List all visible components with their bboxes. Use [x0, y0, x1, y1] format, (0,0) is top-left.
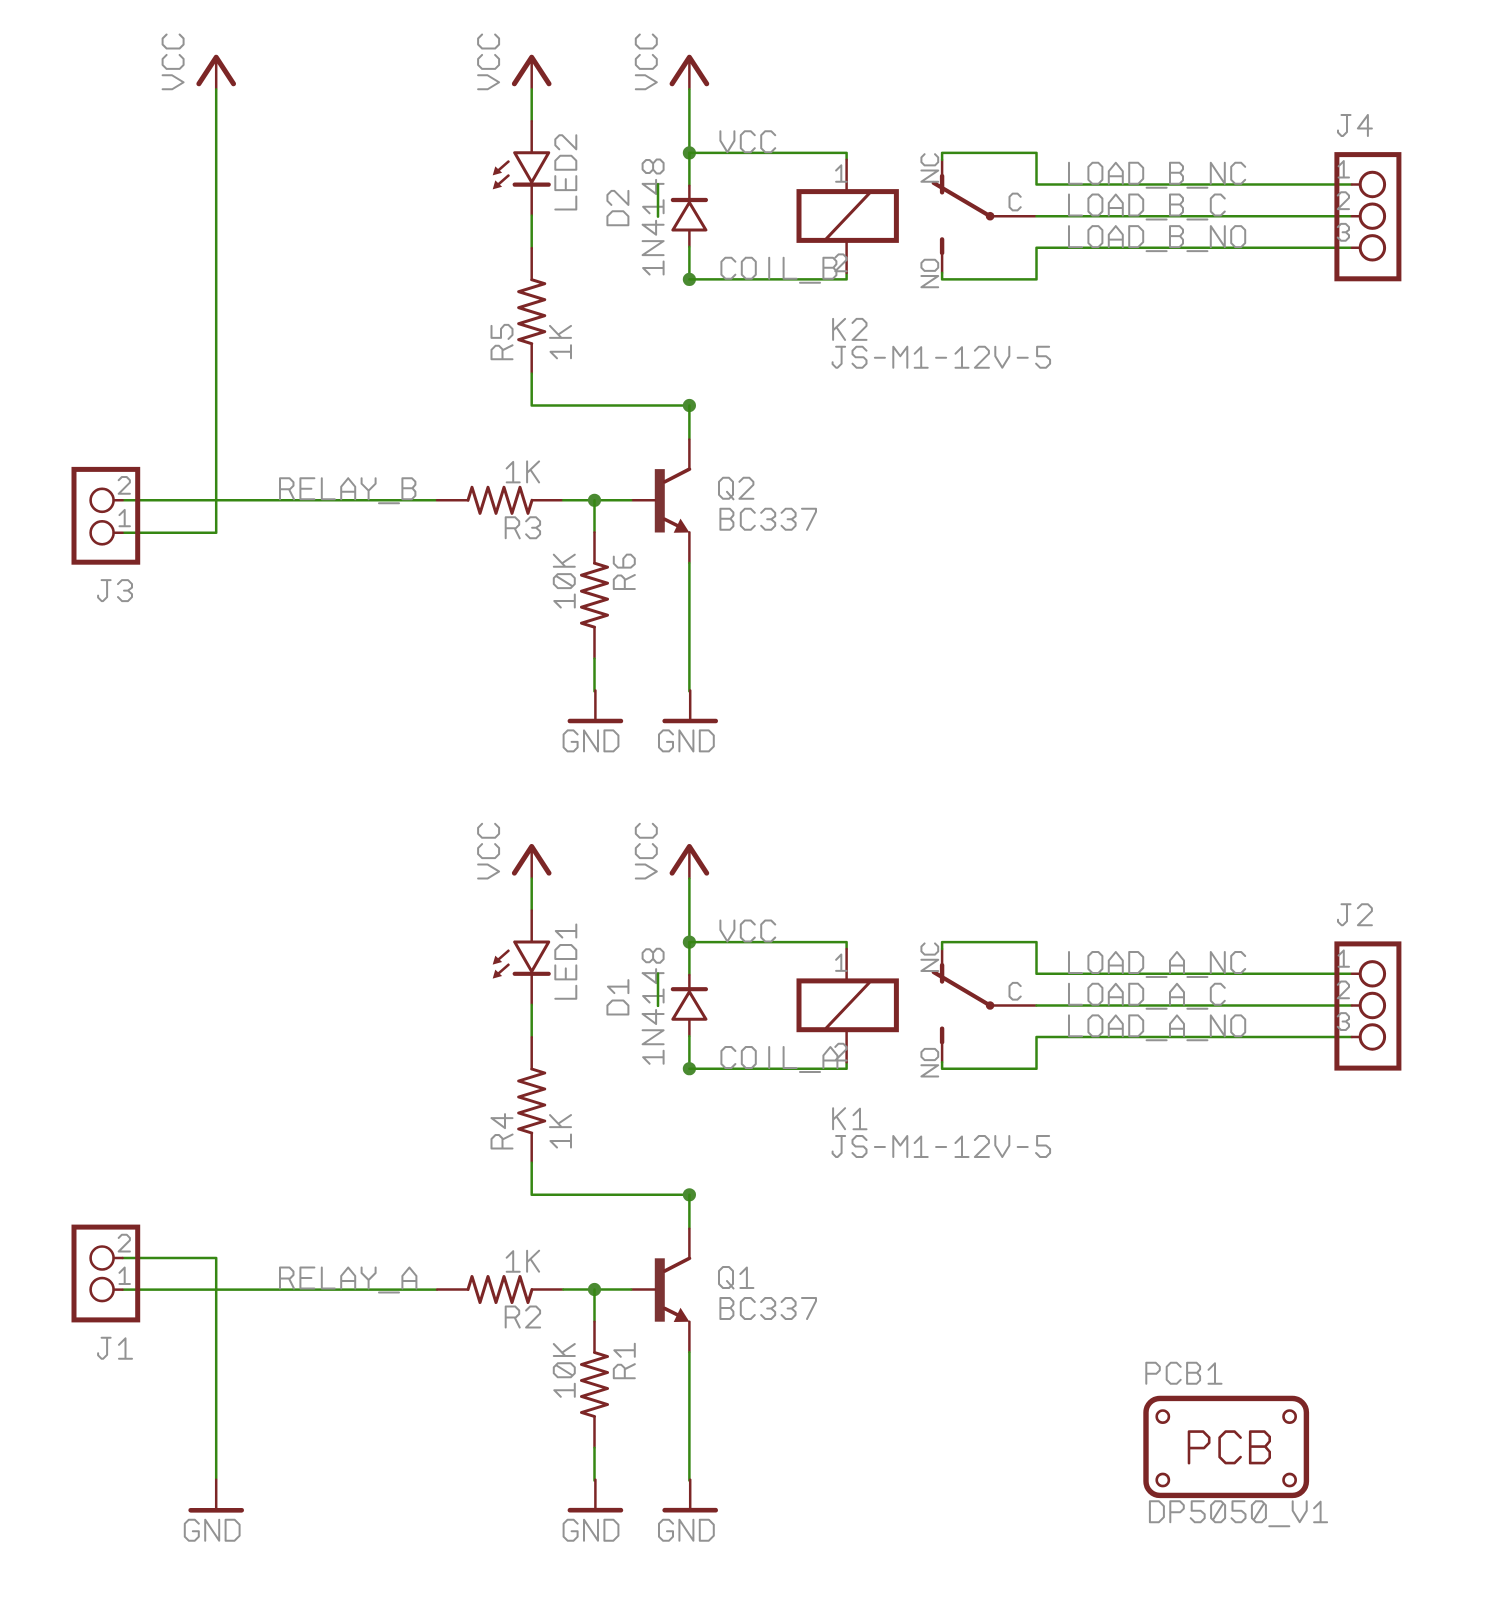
wire VCC to LEDB [530, 89, 533, 121]
label LOAD_A_C net [1069, 984, 1225, 1009]
connector J2 [1337, 944, 1399, 1068]
label J3 [98, 580, 132, 601]
ground symbol under Q2 [665, 691, 716, 722]
label GND under Q1 [659, 1520, 714, 1541]
label LOAD_B_NO net [1069, 226, 1245, 251]
wire VCC node to relay coil pin 1 [689, 942, 846, 949]
connector J4 [1337, 155, 1399, 279]
label VCC (input J3) [163, 35, 184, 90]
label VCC (LED branch) A [478, 824, 499, 879]
relay K1 switch blade [934, 972, 1037, 1010]
label DP5050_V1 value of PCB1 [1150, 1501, 1327, 1526]
label RELAY_B net [280, 478, 415, 503]
pin name C of K2 [1010, 194, 1021, 211]
pin 2 label of K1 [835, 1044, 846, 1061]
wire emitter of Q2 to ground [688, 563, 691, 691]
label J1 [98, 1338, 132, 1359]
wire VCC down to J3 pin 1 [123, 89, 217, 532]
wire NO contact to J2 pin 3 [942, 1037, 1352, 1069]
resistor R3 base resistor [437, 487, 563, 513]
label LOAD_A_NC net [1069, 952, 1245, 977]
label PCB1 [1146, 1363, 1221, 1384]
label GND under R1 [564, 1520, 619, 1541]
pin 3 label of J4 [1338, 224, 1349, 241]
junction collector node B [683, 399, 696, 412]
label LED2 [555, 135, 576, 209]
wire VCC down to VCC node A [688, 879, 691, 943]
pin name NO of K1 [921, 1049, 938, 1077]
label 10K value of R6 [554, 555, 575, 608]
connector J1 [74, 1227, 138, 1320]
wire VCC to LEDA [530, 879, 533, 911]
label 1K value of R2 [507, 1251, 539, 1272]
relay K1 switch NO contact [940, 1029, 944, 1063]
power VCC symbol (LED branch) B [514, 57, 549, 89]
wire coil node to relay coil pin 2 [689, 273, 846, 280]
label D2 [607, 191, 628, 225]
ground symbol under R1 [570, 1480, 621, 1510]
wire collector node to Q2 [688, 406, 691, 440]
label Q2 [719, 478, 753, 500]
pin 2 label of J4 [1338, 192, 1349, 209]
LED LED1 [493, 911, 549, 1005]
label R6 [614, 555, 635, 589]
label VCC net A [720, 921, 775, 942]
label K1 [833, 1108, 866, 1129]
label GND under Q2 [659, 730, 714, 751]
label BC337 value of Q1 [720, 1298, 816, 1319]
wire VCC down to VCC node B [688, 89, 691, 152]
label COIL_B net [721, 258, 836, 283]
label R5 [492, 325, 513, 359]
ground symbol at J1 [191, 1480, 242, 1511]
label Q1 [719, 1267, 753, 1289]
diode D2 1N4148 [673, 186, 706, 247]
wire stub near 1N4148 label [657, 974, 660, 1006]
pin name NO of K2 [921, 260, 938, 288]
power VCC symbol (input J3) [199, 57, 234, 89]
wire J1 pin 1 RELAY_A [123, 1288, 438, 1291]
pin 1 label of J4 [1339, 161, 1349, 177]
junction base node B [588, 494, 601, 507]
wire coil node to relay coil pin 2 [689, 1062, 846, 1069]
wire diode anode to coil node B [688, 247, 691, 280]
wire R2 to base node [563, 1288, 631, 1291]
wire J3 pin 2 RELAY_B [123, 499, 438, 502]
resistor R5 [519, 248, 545, 374]
junction VCC node B [683, 146, 696, 159]
label LOAD_B_NC net [1069, 163, 1245, 188]
label J2 [1338, 904, 1372, 925]
resistor R6 pull-down [582, 532, 608, 658]
label GND at J1 [185, 1520, 240, 1541]
label R1 [614, 1344, 635, 1378]
label BC337 value of Q2 [720, 509, 816, 530]
ground symbol under R6 [570, 691, 621, 722]
junction collector node A [683, 1188, 696, 1201]
wire LED to R4 [530, 1005, 533, 1037]
label 1N4148 value of D1 [643, 949, 664, 1064]
relay K2 coil [799, 160, 896, 273]
wire NC contact to J2 pin 1 [942, 942, 1352, 974]
label R3 [506, 517, 540, 538]
label LED1 [555, 925, 576, 999]
pin 1 label of K1 [836, 955, 846, 971]
wire base node down to R1 [593, 1290, 596, 1322]
wire J1 pin 2 to ground [123, 1258, 217, 1479]
wire diode anode to coil node A [688, 1036, 691, 1069]
pin 2 label of J2 [1338, 982, 1349, 999]
pin 1 label of J1 [120, 1268, 130, 1284]
wire VCC node to relay coil pin 1 [689, 153, 846, 160]
wire VCC node to diode D2 [688, 153, 691, 186]
label 10K value of R1 [554, 1344, 575, 1397]
pin 2 label of J1 [119, 1235, 130, 1252]
label GND under R6 [564, 730, 619, 751]
transistor Q1 BC337 [631, 1229, 689, 1352]
relay K2 switch blade [934, 183, 1037, 221]
wire LED to R5 [530, 216, 533, 249]
resistor R4 [519, 1037, 545, 1163]
label 1K value of R3 [507, 461, 539, 482]
label LOAD_B_C net [1069, 195, 1225, 220]
ground symbol under Q1 [665, 1480, 716, 1510]
pin name NC of K1 [921, 943, 938, 971]
wire NO contact to J4 pin 3 [942, 248, 1352, 280]
pin name C of K1 [1010, 983, 1021, 1000]
resistor R2 base resistor [437, 1277, 563, 1303]
power VCC symbol (LED branch) A [514, 847, 549, 879]
junction coil node A [683, 1062, 696, 1075]
LED LED2 [493, 121, 549, 215]
wire R4 to collector node [532, 1163, 690, 1195]
label 1K value of R4 [550, 1115, 571, 1147]
wire common contact to J2 pin 2 [1037, 1004, 1352, 1007]
power VCC symbol (relay branch) B [672, 57, 707, 89]
wire NC contact to J4 pin 1 [942, 153, 1352, 185]
junction base node A [588, 1283, 601, 1296]
pin 1 label of J2 [1339, 950, 1349, 966]
relay K1 switch NC contact [941, 949, 944, 982]
wire R6 to ground [593, 659, 596, 692]
transistor Q2 BC337 [631, 440, 689, 564]
label VCC (relay branch) B [636, 35, 657, 90]
PCB outline symbol PCB1 [1146, 1398, 1306, 1495]
label COIL_A net [721, 1047, 837, 1072]
label RELAY_A net [280, 1268, 416, 1293]
relay K2 switch NC contact [941, 160, 944, 193]
junction VCC node A [683, 936, 696, 949]
wire VCC node to diode D1 [688, 942, 691, 975]
label K2 [833, 319, 866, 340]
pin 1 label of K2 [836, 165, 846, 181]
label PCB inside PCB1 [1189, 1432, 1270, 1464]
pin 1 label of J3 [120, 510, 130, 526]
power VCC symbol (relay branch) A [672, 847, 707, 879]
connector J3 [74, 469, 138, 562]
wire stub near 1N4148 label [657, 184, 660, 216]
wire emitter of Q1 to ground [688, 1352, 691, 1480]
label VCC (relay branch) A [636, 824, 657, 879]
label 1N4148 value of D2 [643, 160, 664, 275]
resistor R1 pull-down [582, 1322, 608, 1448]
label 1K value of R5 [550, 326, 571, 358]
relay K2 switch NO contact [940, 239, 944, 273]
label J4 [1338, 115, 1372, 136]
label VCC (LED branch) B [478, 35, 499, 90]
label R4 [492, 1114, 513, 1148]
pin 3 label of J2 [1338, 1013, 1349, 1030]
diode D1 1N4148 [673, 975, 706, 1036]
wire R3 to base node [563, 499, 631, 502]
label LOAD_A_NO net [1069, 1015, 1245, 1040]
junction coil node B [683, 273, 696, 286]
pin 2 label of J3 [119, 477, 130, 494]
label VCC net B [720, 131, 775, 152]
wire common contact to J4 pin 2 [1037, 215, 1352, 218]
label D1 [607, 980, 628, 1014]
label JS-M1-12V-5 value of K1 [833, 1136, 1051, 1157]
wire base node down to R6 [593, 500, 596, 532]
pin 2 label of K2 [835, 254, 846, 271]
relay K1 coil [799, 949, 896, 1062]
wire R5 to collector node [532, 374, 690, 406]
wire collector node to Q1 [688, 1195, 691, 1229]
label R2 [506, 1307, 540, 1328]
pin name NC of K2 [921, 154, 938, 182]
label JS-M1-12V-5 value of K2 [833, 347, 1051, 368]
wire R1 to ground [593, 1448, 596, 1481]
